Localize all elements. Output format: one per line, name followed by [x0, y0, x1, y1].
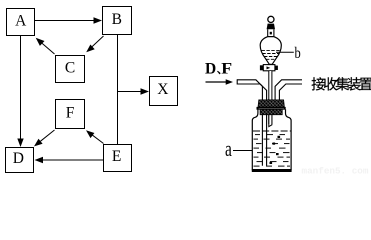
- arrow to X: [118, 88, 150, 94]
- box D: [6, 148, 34, 173]
- bottle bottom: [252, 169, 292, 172]
- svg-text:E: E: [112, 148, 121, 165]
- svg-text:D: D: [13, 150, 24, 167]
- liquid surface: [253, 130, 291, 132]
- svg-text:b: b: [295, 45, 301, 63]
- svg-text:D: D: [205, 60, 216, 77]
- rubber stopper: [257, 100, 286, 115]
- arrow A to B: [35, 17, 102, 23]
- arrow B to C: [86, 36, 103, 52]
- wire B to E: [117, 35, 119, 144]
- label b leader: [276, 51, 294, 53]
- box F: [56, 100, 85, 129]
- svg-text:A: A: [15, 13, 27, 30]
- arrow C to A: [36, 38, 55, 54]
- left inlet tube: [237, 79, 266, 166]
- right outlet tube: [275, 80, 302, 115]
- label a leader: [233, 150, 252, 152]
- arrow F to D: [34, 130, 55, 146]
- arrow E to D: [35, 157, 104, 163]
- stopcock: [260, 65, 278, 71]
- box A: [7, 9, 35, 36]
- arrow A to D: [17, 36, 23, 147]
- liquid dashes: [254, 135, 291, 167]
- label receive collection device: [312, 77, 371, 90]
- bottle a: [252, 109, 291, 169]
- svg-text:X: X: [157, 81, 168, 98]
- funnel stopper collar: [267, 24, 275, 30]
- svg-text:C: C: [65, 60, 75, 77]
- arrow E to F: [86, 130, 104, 143]
- funnel stopper knob: [268, 16, 274, 22]
- arrow D,F: [206, 79, 234, 84]
- svg-text:B: B: [112, 11, 122, 28]
- svg-text:a: a: [225, 138, 232, 162]
- box E: [104, 145, 132, 172]
- svg-text:F: F: [221, 59, 232, 77]
- box C: [56, 56, 85, 83]
- box B: [103, 7, 132, 35]
- funnel stem: [269, 71, 272, 124]
- funnel neck: [268, 29, 274, 37]
- separating funnel bulb b: [260, 37, 281, 65]
- solid dots in liquid: [270, 136, 281, 164]
- funnel stem walls over stopper redrawn: [269, 99, 272, 127]
- svg-text:manfen5. com: manfen5. com: [302, 165, 369, 176]
- liquid in bulb: [262, 50, 281, 59]
- svg-text:F: F: [66, 105, 75, 122]
- box X: [150, 77, 178, 106]
